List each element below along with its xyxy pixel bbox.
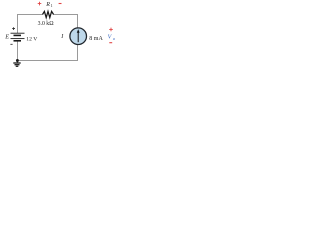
svg-text:V: V [108, 35, 113, 41]
wire top-right (resistor right to current source top) [54, 15, 78, 28]
current source I circle [70, 28, 87, 45]
current source arrow [77, 32, 79, 42]
svg-text:8 mA: 8 mA [89, 36, 103, 42]
wire top-left L (from battery top to resistor left) [18, 15, 43, 34]
label - (red, right of R1) [59, 3, 62, 5]
svg-text:E: E [4, 33, 9, 40]
svg-text:I: I [60, 34, 64, 40]
label - (Va, red) [109, 42, 112, 44]
junction node dot [16, 59, 19, 62]
svg-text:a: a [113, 36, 115, 41]
svg-text:12 V: 12 V [26, 37, 37, 43]
label + (red, left of R1) [38, 2, 42, 6]
svg-text:3.0 kΩ: 3.0 kΩ [38, 21, 55, 27]
wire bottom (current source bottom to bottom-left junction) [17, 45, 78, 61]
label + (battery) [12, 27, 15, 30]
battery E plates [11, 32, 25, 34]
wire battery bottom to junction [17, 41, 19, 61]
svg-text:1: 1 [51, 3, 53, 8]
resistor R1 zigzag [43, 11, 54, 17]
svg-text:R: R [45, 2, 50, 8]
label + (Va, red) [109, 28, 113, 32]
ground symbol [16, 61, 18, 63]
label - (battery) [10, 43, 12, 45]
